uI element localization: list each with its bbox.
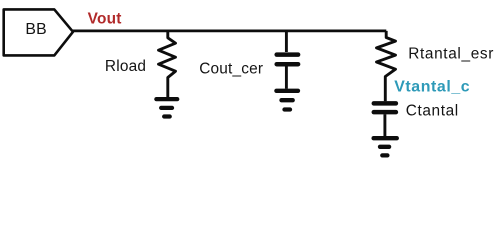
resistor R2 Rtantal_esr [377, 31, 396, 101]
svg-text:Rload: Rload [105, 58, 146, 75]
ground under Ctantal [374, 138, 397, 155]
capacitor C1 Cout_cer [277, 31, 298, 89]
capacitor C2 Ctantal [374, 103, 396, 136]
svg-text:Cout_cer: Cout_cer [199, 60, 263, 77]
resistor R1 Rload [159, 31, 176, 99]
svg-text:Ctantal: Ctantal [406, 103, 459, 120]
port BB [4, 9, 73, 55]
svg-text:Vout: Vout [88, 10, 122, 27]
ground under Rload [156, 99, 177, 116]
svg-text:BB: BB [25, 21, 46, 38]
wire Vout net [73, 29, 387, 32]
svg-text:Vtantal_c: Vtantal_c [394, 79, 470, 96]
svg-text:Rtantal_esr: Rtantal_esr [408, 46, 494, 63]
ground under Cout_cer [276, 91, 298, 110]
